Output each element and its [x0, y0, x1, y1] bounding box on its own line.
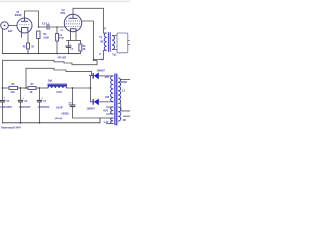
- wire jack sleeve to ground rail: [2, 29, 4, 54]
- svg-text:Ламповый УНЧ: Ламповый УНЧ: [1, 125, 21, 129]
- wire winding3 bottom stub: [107, 123, 114, 125]
- wire PSU filter line node1: [3, 87, 10, 89]
- wire OPT secondary to speaker: [112, 36, 117, 50]
- ground rail amp: [3, 53, 81, 55]
- svg-text:10UF/450V: 10UF/450V: [0, 106, 12, 109]
- svg-text:100K: 100K: [43, 36, 49, 39]
- wire V1 cathode resistor to ground: [27, 49, 29, 54]
- svg-text:10ГН: 10ГН: [56, 92, 62, 94]
- resistor R4 grid leak: [56, 34, 59, 42]
- wire plate junction to coupling cap: [39, 26, 48, 28]
- svg-text:BxГ: BxГ: [8, 29, 13, 33]
- wire R3 bottom to ground: [38, 39, 40, 54]
- wire OPT primary ends: [104, 33, 107, 51]
- resistor R6 psu: [9, 86, 18, 89]
- svg-text:10UF/450V: 10UF/450V: [19, 106, 31, 109]
- wire bottom diode cathode: [91, 101, 94, 103]
- wire V2 screen to right: [82, 21, 94, 60]
- speaker: [117, 33, 131, 53]
- resistor R5 cathode V2: [79, 44, 82, 51]
- wire OPT primary bottom: [94, 51, 104, 60]
- wire V2 plate top route: [73, 8, 104, 33]
- HV winding: [111, 76, 114, 102]
- output transformer Tr2 primary: [104, 32, 114, 52]
- wire R4 bottom to ground: [56, 41, 58, 54]
- wire top diode anode to winding: [99, 75, 113, 77]
- svg-text:220B: 220B: [121, 80, 127, 84]
- svg-text:6Ж32: 6Ж32: [15, 13, 22, 17]
- wire jack to V1 grid: [8, 25, 17, 27]
- svg-text:1N4007: 1N4007: [87, 107, 96, 110]
- wire bottom diode anode to winding: [99, 101, 113, 103]
- winding3: [111, 118, 114, 124]
- svg-text:100UF: 100UF: [56, 107, 63, 109]
- svg-text:1,2V: 1,2V: [103, 121, 108, 124]
- wire V1 heater stub: [21, 33, 23, 38]
- wire cap4 leads: [72, 88, 74, 105]
- svg-text:4B: 4B: [123, 119, 126, 122]
- svg-text:2K: 2K: [30, 92, 33, 94]
- wire rectifier cathode join vertical: [90, 75, 92, 101]
- resistor R2 cathode V1: [27, 43, 30, 49]
- wire mains stub 2: [124, 115, 131, 117]
- wire mains top: [120, 79, 130, 81]
- resistor R7 psu: [28, 86, 36, 89]
- mains winding B: [118, 107, 121, 121]
- wire V1 plate top route: [25, 11, 39, 27]
- capacitor C7 electrolytic: [37, 100, 43, 102]
- wire B+ long run A: [3, 60, 98, 88]
- svg-text:1K: 1K: [31, 46, 34, 48]
- svg-text:15K: 15K: [10, 92, 15, 94]
- svg-text:Tp1: Tp1: [112, 53, 117, 56]
- wire mains winding A bottom drop: [121, 104, 130, 111]
- wire B long run screen feed: [26, 68, 92, 88]
- wire coupling cap to V2 grid: [49, 26, 65, 28]
- output transformer secondary: [112, 36, 115, 50]
- diode D1: [93, 72, 99, 79]
- capacitor C6 electrolytic: [18, 100, 24, 102]
- wire V1 cathode lead: [27, 32, 29, 43]
- junction dots: [2, 26, 95, 124]
- svg-text:6П1: 6П1: [61, 11, 66, 15]
- svg-text:6V3: 6V3: [103, 109, 108, 113]
- wire cap1 leads: [2, 88, 4, 100]
- svg-text:Dp1: Dp1: [48, 80, 53, 83]
- power transformer Tr1: [111, 74, 121, 126]
- svg-text:230: 230: [105, 76, 110, 79]
- wire heater winding stubs: [107, 106, 114, 108]
- svg-text:230: 230: [105, 96, 110, 99]
- power transformer core: [114, 74, 116, 126]
- wire node2: [18, 87, 28, 89]
- pentode V2: [64, 14, 81, 31]
- wire V2 cathode leads: [70, 31, 72, 40]
- wire top diode cathode: [90, 74, 94, 76]
- wire choke to rectifier join: [67, 87, 91, 89]
- svg-text:476 087: 476 087: [58, 57, 67, 60]
- svg-text:10UF/450V: 10UF/450V: [38, 106, 50, 109]
- output transformer core: [107, 32, 109, 52]
- svg-text:BK: BK: [100, 42, 104, 44]
- wire cap2 leads: [20, 88, 22, 100]
- wire V2 cathode bar: [67, 40, 81, 42]
- svg-text:(450B): (450B): [62, 113, 69, 116]
- ground rail psu: [3, 118, 101, 123]
- wire R5 leads: [79, 41, 81, 45]
- wire cap3 leads: [39, 88, 41, 100]
- choke L1: [48, 84, 68, 88]
- capacitor C5 electrolytic: [0, 100, 5, 102]
- svg-text:C3 0,1: C3 0,1: [42, 23, 50, 26]
- mains winding A: [118, 78, 120, 104]
- border frame top: [0, 0, 130, 2]
- capacitor C8 electrolytic: [70, 105, 76, 107]
- diode D2: [93, 99, 99, 106]
- svg-text:3K: 3K: [83, 49, 86, 51]
- resistor R3 plate load: [37, 31, 40, 39]
- svg-text:(45mA): (45mA): [55, 117, 63, 120]
- wire winding3 top to ground: [100, 117, 113, 119]
- wire cathode cap bottom lead: [68, 47, 70, 53]
- svg-text:470K: 470K: [59, 36, 65, 39]
- wire B+ jog to rectifier: [94, 61, 98, 65]
- triode V1: [17, 18, 32, 33]
- input jack X1: [1, 22, 9, 30]
- wire grid leak R4 drop: [56, 27, 58, 34]
- heater winding 6V3: [111, 107, 114, 114]
- wire node3 to choke: [36, 87, 48, 89]
- svg-text:1N4007: 1N4007: [97, 70, 106, 73]
- capacitor C4 cathode bypass: [65, 46, 71, 47]
- wire cathode cap top lead: [68, 41, 70, 46]
- coupling capacitor C3: [47, 24, 49, 29]
